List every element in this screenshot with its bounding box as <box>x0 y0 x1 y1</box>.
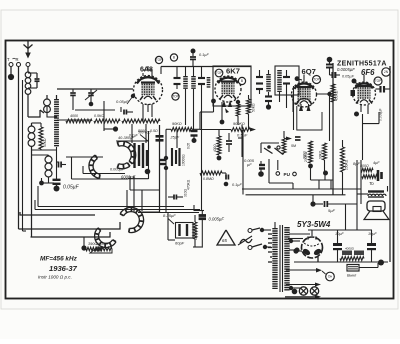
6k7 leads <box>220 102 229 124</box>
tube 6A8 <box>134 76 163 105</box>
svg-text:900KΩ: 900KΩ <box>233 122 245 126</box>
dot2 <box>53 147 61 192</box>
res 0.8M <box>200 171 222 181</box>
trim caps <box>168 212 187 240</box>
switch arm 2 <box>275 146 284 155</box>
label 900K <box>233 122 245 126</box>
res 3900 <box>90 241 112 253</box>
vlabel 370 <box>184 188 188 197</box>
lamp 2 <box>310 287 318 295</box>
ac squiggle <box>238 236 252 245</box>
svg-text:0.005µF: 0.005µF <box>209 217 225 222</box>
bus y195 <box>246 194 346 196</box>
resistor 50K <box>39 127 47 149</box>
gang feeds <box>132 124 146 143</box>
terminal A <box>26 63 30 73</box>
tube 6Q7 <box>292 82 317 107</box>
IF2 coil a <box>266 70 271 92</box>
tube 6F6 <box>353 82 376 105</box>
res 500 <box>360 164 373 172</box>
res 90K2 <box>319 143 329 176</box>
label 60pF <box>175 241 185 246</box>
6q7 box <box>294 86 323 130</box>
svg-text:5M: 5M <box>291 144 296 148</box>
svg-text:TOP: TOP <box>216 71 223 75</box>
cap 0.05 <box>121 107 133 115</box>
border frame <box>6 41 394 299</box>
vlabel 100023 <box>194 226 198 240</box>
svg-text:0.8MΩ: 0.8MΩ <box>203 177 214 181</box>
tube 6K7 <box>215 76 241 102</box>
circle B <box>170 54 177 61</box>
svg-text:2N: 2N <box>384 70 389 74</box>
6q7 diode arcs <box>297 99 311 103</box>
tube 5Y3 <box>302 237 323 259</box>
res 400 <box>213 129 221 160</box>
label 0.05uF <box>63 185 80 191</box>
cap 10uF b <box>367 230 377 262</box>
coupling coil L2 <box>40 95 50 113</box>
node line <box>32 147 49 156</box>
circle 2 <box>382 68 390 76</box>
antenna <box>24 41 33 59</box>
wire x159 <box>159 125 161 212</box>
cap mid2 <box>168 195 183 200</box>
label 40-380 <box>118 136 135 140</box>
svg-text:0.0005µF: 0.0005µF <box>337 67 355 72</box>
pt core <box>280 225 283 292</box>
wire T2 down <box>22 80 24 231</box>
ant cap C1 <box>28 73 40 88</box>
top circle 6q7 <box>313 76 321 84</box>
rotor 2 <box>120 207 144 232</box>
wire to osc <box>28 110 40 117</box>
title <box>337 61 387 68</box>
cap 6f6 <box>376 86 391 93</box>
IF2 box <box>275 66 299 95</box>
rotor wires <box>127 190 160 212</box>
speaker cone <box>357 194 389 220</box>
res out2 <box>362 175 377 179</box>
caps mid <box>172 148 180 166</box>
res 05K <box>94 114 160 123</box>
res 50K 6k7 <box>247 95 256 130</box>
triangle <box>217 230 235 245</box>
gang caps <box>135 143 148 168</box>
bus y110 <box>75 109 115 111</box>
bus y237 <box>31 232 111 237</box>
bus y262 <box>294 260 388 266</box>
trimmer <box>85 89 97 106</box>
svg-text:R: R <box>16 57 19 62</box>
label year <box>49 264 78 273</box>
arrow <box>286 137 292 141</box>
svg-text:0.005µF: 0.005µF <box>110 168 125 172</box>
gang rotor 2 arc <box>89 155 100 178</box>
wire x333 <box>332 63 334 195</box>
svg-text:4000Ω: 4000Ω <box>345 247 355 251</box>
cap out <box>373 161 382 181</box>
label 6000 <box>121 175 136 180</box>
out transformer <box>368 186 388 197</box>
plug top <box>248 228 271 233</box>
6f6 lead top <box>352 75 365 84</box>
label 8-35 <box>163 213 176 224</box>
plug bot <box>248 244 271 250</box>
wire x357 <box>356 160 358 230</box>
wire x368 <box>389 66 391 89</box>
vlabel 10K <box>182 154 186 166</box>
svg-text:0.05µF: 0.05µF <box>63 185 80 191</box>
svg-text:T: T <box>7 57 10 62</box>
svg-text:To: To <box>369 181 374 186</box>
IF1 cap a <box>174 67 181 89</box>
wire x243 <box>238 130 243 195</box>
svg-text:470KΩ: 470KΩ <box>187 179 191 190</box>
cap 0005 p <box>209 217 225 222</box>
dot y204 <box>310 195 323 207</box>
wire x358 <box>362 124 364 160</box>
top circle 6f6 <box>374 77 382 85</box>
RC res <box>193 215 197 239</box>
vol pot <box>231 128 256 132</box>
dot 6q7 grid <box>295 76 302 81</box>
svg-text:90KΩ: 90KΩ <box>319 150 323 159</box>
RC corner <box>194 200 205 211</box>
6q7 plate line <box>303 75 305 83</box>
bus y189 <box>242 188 361 190</box>
svg-text:8-35µF: 8-35µF <box>163 213 176 218</box>
circle B 6k7 <box>238 77 245 84</box>
rect left dot <box>288 239 318 263</box>
wire top pair <box>32 123 42 127</box>
bus y209 <box>35 200 200 210</box>
IF1 coil a <box>183 67 188 89</box>
RC bottom <box>193 239 203 247</box>
lamp arrows <box>285 283 321 299</box>
wire x134 <box>130 176 160 212</box>
svg-text:MF=456 kHz: MF=456 kHz <box>40 256 78 263</box>
IF1 cap b <box>198 67 205 89</box>
dot 6k7 k <box>200 99 216 130</box>
dot gang <box>145 169 151 175</box>
rheostat <box>347 263 378 278</box>
svg-text:0.008µF: 0.008µF <box>379 108 383 121</box>
label 5y3 <box>297 220 331 229</box>
svg-text:25pF: 25pF <box>170 136 180 140</box>
switch bus top <box>261 143 279 153</box>
label 6A8 <box>140 67 153 74</box>
res 90K <box>166 122 200 131</box>
vlabel 0008 <box>379 108 383 121</box>
res 230K <box>304 141 313 168</box>
svg-text:6F6: 6F6 <box>361 68 375 77</box>
wire right <box>66 157 125 174</box>
cap hor <box>330 72 355 79</box>
svg-text:65: 65 <box>222 238 227 243</box>
IF2 cap a <box>256 70 263 94</box>
6k7 arrows <box>222 100 232 107</box>
circ On <box>286 268 334 281</box>
cap 0005 sw <box>244 158 265 177</box>
svg-text:5Y3-5W4: 5Y3-5W4 <box>297 220 331 229</box>
6q7 leads <box>299 104 311 111</box>
bus y206 <box>38 186 184 207</box>
resistor 390 <box>81 237 102 251</box>
coil L4 <box>28 123 35 146</box>
svg-text:TOP: TOP <box>172 95 179 99</box>
svg-text:400Ω: 400Ω <box>213 144 217 152</box>
cap r1 <box>295 137 307 159</box>
svg-text:6K7: 6K7 <box>226 67 240 76</box>
svg-text:10000Ω: 10000Ω <box>182 154 186 166</box>
cap C <box>70 89 76 110</box>
bus y212 <box>138 212 199 214</box>
svg-text:60pF: 60pF <box>175 241 185 246</box>
6k7 box <box>213 66 251 106</box>
label 6Q7 <box>302 67 316 76</box>
IF2 coil b <box>277 70 282 92</box>
svg-text:Instr 1000 Ω p.c.: Instr 1000 Ω p.c. <box>38 275 72 280</box>
svg-text:TOP: TOP <box>313 78 320 82</box>
svg-text:B: B <box>241 79 243 83</box>
rect top lead <box>308 230 372 236</box>
cap gnd <box>190 49 196 67</box>
terminal T <box>7 57 13 74</box>
IF1 coil c <box>207 77 211 88</box>
svg-text:0.05µF: 0.05µF <box>342 75 355 79</box>
label 800 <box>129 129 158 138</box>
svg-text:B: B <box>173 56 175 60</box>
cap 10uF a <box>333 230 344 262</box>
6q7 out <box>317 92 334 141</box>
svg-text:TOP: TOP <box>156 58 163 62</box>
IF2 leads <box>280 88 302 112</box>
wire x166 <box>165 129 167 212</box>
top circle 6a8 k <box>172 93 179 100</box>
wire <box>47 106 57 117</box>
label 05uF <box>237 133 248 138</box>
svg-text:Он: Он <box>328 275 333 279</box>
speaker box <box>367 201 385 211</box>
tube bottom leads <box>143 104 152 121</box>
svg-text:10µF: 10µF <box>335 232 344 236</box>
res 250K <box>341 140 349 195</box>
trim box <box>176 223 194 239</box>
6f6 leads down <box>354 105 379 124</box>
wire x242 <box>241 125 243 157</box>
bus y89 <box>57 88 133 90</box>
series cap b <box>159 160 166 164</box>
bus y120 <box>57 119 92 121</box>
dot x115 <box>113 126 118 131</box>
gang rotor top arc <box>117 141 135 164</box>
bus y229 <box>19 222 121 229</box>
svg-text:4µF: 4µF <box>373 161 380 165</box>
gang rotor bot arc <box>117 163 130 169</box>
label 8uF <box>353 161 361 166</box>
bus y180 <box>311 166 334 180</box>
bus y222 <box>23 230 27 232</box>
svg-text:0.5Ω: 0.5Ω <box>150 129 158 133</box>
label instr <box>38 275 72 280</box>
label 25pF <box>170 129 180 148</box>
coil L5 <box>45 155 52 183</box>
svg-text:50KΩ: 50KΩ <box>252 103 256 112</box>
ant coil L1 <box>25 72 31 117</box>
wire x390 <box>389 66 391 262</box>
top circle 6k7 <box>215 69 223 77</box>
lamp dots <box>292 289 298 295</box>
osc winding L3 <box>32 95 57 150</box>
switch arm 1 <box>264 145 273 153</box>
PU terminal <box>276 160 296 177</box>
lamp 1 <box>299 287 307 295</box>
dot <box>39 178 54 185</box>
svg-text:1936-37: 1936-37 <box>49 264 78 273</box>
IF2 cap mid <box>265 92 272 110</box>
svg-text:0.1µF: 0.1µF <box>199 53 209 57</box>
label 0005 <box>110 168 125 172</box>
wire 6a8 top <box>160 67 162 75</box>
svg-text:90KΩ: 90KΩ <box>172 122 182 126</box>
bus y215 <box>20 212 95 215</box>
svg-text:µF: µF <box>247 162 252 167</box>
wire x345 <box>345 204 347 230</box>
res 450K <box>331 84 339 102</box>
svg-text:5µF: 5µF <box>328 208 336 213</box>
field coil <box>340 247 364 261</box>
svg-text:Выкл: Выкл <box>347 274 357 278</box>
cap 6k7 <box>226 133 232 152</box>
wire x104 <box>104 101 113 131</box>
label 0.05uF 6a8 <box>116 94 135 104</box>
label To <box>369 181 374 186</box>
svg-text:3900Ω: 3900Ω <box>96 241 108 246</box>
svg-text:310Ω: 310Ω <box>184 188 188 197</box>
svg-text:50KΩ: 50KΩ <box>43 138 47 147</box>
wire x30 down <box>31 155 33 237</box>
cap 00005 <box>326 57 333 75</box>
res 5M <box>282 131 296 154</box>
label 6K7 <box>226 67 240 76</box>
cap 01 <box>222 173 242 187</box>
label 01uF <box>199 53 209 57</box>
IF1 coil b <box>191 67 196 89</box>
terminal R <box>13 57 21 67</box>
label 00005 <box>337 67 355 72</box>
RC cap <box>199 211 206 247</box>
label MF <box>40 256 78 263</box>
bus y129 <box>200 129 231 131</box>
cap trim <box>57 162 67 168</box>
svg-text:300-600: 300-600 <box>138 131 151 135</box>
tube leads <box>143 66 152 76</box>
bus stubs <box>319 180 331 189</box>
svg-text:0.1µF: 0.1µF <box>232 183 242 187</box>
label 6F6 <box>361 68 375 77</box>
svg-text:PU: PU <box>284 172 291 177</box>
svg-text:0.05: 0.05 <box>187 143 191 149</box>
dot below T <box>8 74 14 80</box>
bus y66 <box>161 66 251 68</box>
vlabel 470K <box>187 179 191 190</box>
res 4000 <box>66 114 92 123</box>
cap 5uF <box>325 201 358 213</box>
svg-text:250KΩ: 250KΩ <box>345 159 349 170</box>
gang box <box>116 131 149 179</box>
IF1 leads <box>186 89 202 135</box>
wire x361 <box>360 160 362 204</box>
svg-text:10µF: 10µF <box>368 232 377 236</box>
6f6 grid sq <box>351 90 356 96</box>
pt secondary <box>284 227 289 291</box>
series cap a <box>156 136 164 140</box>
res 300 6k7 <box>236 100 240 125</box>
IF1 end cap <box>187 131 198 149</box>
svg-text:230KΩ: 230KΩ <box>304 151 308 162</box>
top circle <box>155 56 162 63</box>
pt primary <box>268 222 275 289</box>
wire box <box>72 157 129 179</box>
rotor 3 <box>95 228 116 248</box>
label Rin <box>138 131 151 142</box>
pt taps <box>289 234 310 290</box>
switch wire down <box>269 159 293 189</box>
node dots x166 <box>164 156 168 170</box>
IF2 cap b <box>283 70 290 88</box>
svg-text:4000: 4000 <box>70 114 78 118</box>
svg-text:0.5KΩ: 0.5KΩ <box>94 114 104 118</box>
svg-text:TOP: TOP <box>375 79 382 83</box>
svg-text:450KΩ: 450KΩ <box>335 90 339 101</box>
wire x201 <box>201 135 203 200</box>
wire R down <box>18 67 20 230</box>
